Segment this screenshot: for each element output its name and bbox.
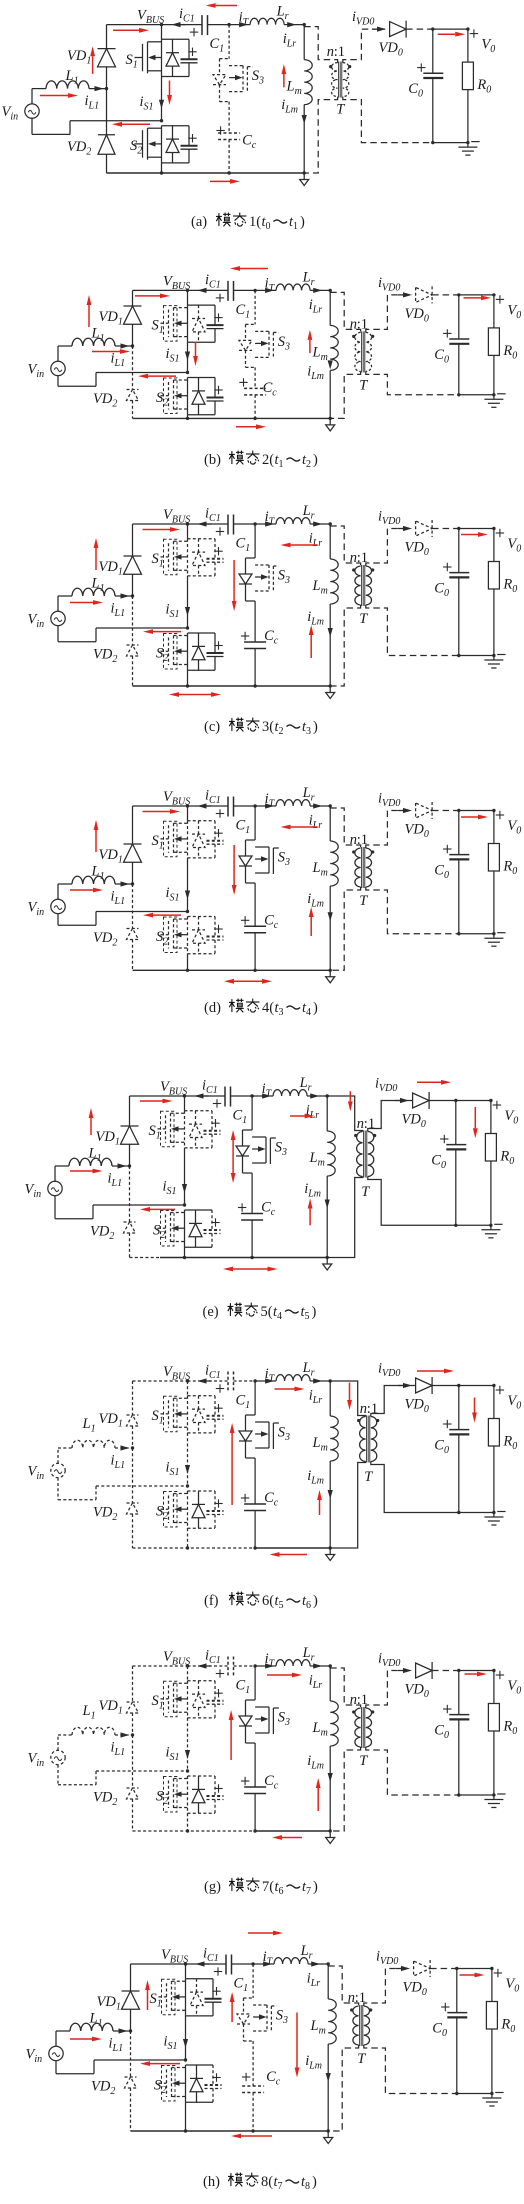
svg-text:L1: L1 xyxy=(88,1146,102,1165)
svg-text:iLr: iLr xyxy=(306,1103,320,1122)
svg-text:R0: R0 xyxy=(499,1149,514,1168)
svg-text:L1: L1 xyxy=(82,1416,96,1435)
svg-text:VD2: VD2 xyxy=(93,1790,117,1809)
svg-text:S2: S2 xyxy=(130,138,142,157)
svg-text:S1: S1 xyxy=(152,1693,164,1712)
svg-text:V0: V0 xyxy=(507,1678,521,1697)
svg-text:iL1: iL1 xyxy=(108,1171,123,1190)
svg-text:iLm: iLm xyxy=(307,891,324,910)
svg-text:iC1: iC1 xyxy=(205,506,221,525)
svg-text:S1: S1 xyxy=(152,1408,164,1427)
svg-text:S2: S2 xyxy=(156,646,168,665)
svg-text:Vin: Vin xyxy=(26,2047,43,2066)
svg-text:VD1: VD1 xyxy=(99,309,123,328)
svg-text:iVD0: iVD0 xyxy=(376,1949,398,1968)
svg-text:S3: S3 xyxy=(278,850,290,869)
svg-text:iLm: iLm xyxy=(307,363,324,382)
svg-text:iS1: iS1 xyxy=(166,1745,180,1764)
svg-text:t3: t3 xyxy=(275,1000,284,1018)
svg-text:t5: t5 xyxy=(301,1304,310,1322)
svg-text:2(: 2( xyxy=(262,452,274,468)
svg-text:S2: S2 xyxy=(156,929,168,948)
svg-text:R0: R0 xyxy=(502,1434,517,1453)
svg-text:VBUS: VBUS xyxy=(161,1947,188,1966)
svg-text:VD1: VD1 xyxy=(97,1994,121,2013)
svg-text::1: :1 xyxy=(357,550,368,566)
svg-text:): ) xyxy=(300,214,305,230)
svg-text:S3: S3 xyxy=(252,68,264,87)
svg-text:T: T xyxy=(361,1184,370,1200)
svg-text:(g): (g) xyxy=(204,1879,221,1895)
svg-text:(h): (h) xyxy=(203,2174,220,2190)
svg-text:R0: R0 xyxy=(500,2017,515,2036)
svg-text::1: :1 xyxy=(357,832,368,848)
svg-text:): ) xyxy=(313,1593,318,1609)
svg-text:L1: L1 xyxy=(91,864,105,883)
svg-text:1(: 1( xyxy=(249,214,261,230)
svg-text:S2: S2 xyxy=(156,390,168,409)
svg-text:Lm: Lm xyxy=(312,1720,328,1739)
svg-text:VD2: VD2 xyxy=(67,139,91,158)
svg-text:iC1: iC1 xyxy=(205,788,221,807)
svg-text:VD2: VD2 xyxy=(90,1224,114,1243)
svg-text:): ) xyxy=(312,1304,317,1320)
svg-text:iL1: iL1 xyxy=(111,351,126,370)
svg-text:(f): (f) xyxy=(204,1593,219,1609)
svg-text:VD0: VD0 xyxy=(405,1397,429,1416)
svg-text:t7: t7 xyxy=(274,2174,283,2192)
svg-text:S1: S1 xyxy=(152,318,164,337)
svg-text:Lm: Lm xyxy=(312,344,328,363)
svg-text:VD2: VD2 xyxy=(93,930,117,949)
svg-text:S3: S3 xyxy=(278,334,290,353)
svg-text:S1: S1 xyxy=(152,551,164,570)
svg-text:S3: S3 xyxy=(278,568,290,587)
svg-text:iVD0: iVD0 xyxy=(352,9,374,28)
svg-text:VD0: VD0 xyxy=(403,1980,427,1999)
svg-text:Cc: Cc xyxy=(264,912,279,931)
svg-text::1: :1 xyxy=(367,1401,378,1417)
svg-text:iLr: iLr xyxy=(309,297,323,316)
svg-text:VBUS: VBUS xyxy=(163,1649,190,1668)
svg-text:Lr: Lr xyxy=(302,1360,315,1379)
svg-text:C0: C0 xyxy=(408,81,423,100)
svg-text:iVD0: iVD0 xyxy=(378,275,400,294)
svg-text:Cc: Cc xyxy=(264,1773,279,1792)
svg-text:C0: C0 xyxy=(434,1723,449,1742)
svg-text:C1: C1 xyxy=(236,1393,251,1412)
svg-text:VBUS: VBUS xyxy=(160,1079,187,1098)
svg-text:VD0: VD0 xyxy=(402,1112,426,1131)
svg-text:L1: L1 xyxy=(91,326,105,345)
svg-text:t1: t1 xyxy=(275,452,284,470)
svg-text:VD2: VD2 xyxy=(93,1505,117,1524)
svg-text:t6: t6 xyxy=(302,1593,311,1611)
svg-text:C0: C0 xyxy=(434,863,449,882)
svg-text:VD2: VD2 xyxy=(93,391,117,410)
svg-text:V0: V0 xyxy=(504,1108,518,1127)
svg-text:t6: t6 xyxy=(275,1879,284,1897)
svg-text:7(: 7( xyxy=(262,1879,274,1895)
svg-text:T: T xyxy=(359,1753,368,1769)
svg-text:): ) xyxy=(313,1879,318,1895)
svg-text:iVD0: iVD0 xyxy=(375,1076,397,1095)
svg-text:VD1: VD1 xyxy=(99,1411,123,1430)
svg-text:): ) xyxy=(313,1000,318,1016)
svg-text:t5: t5 xyxy=(275,1593,284,1611)
svg-text:Cc: Cc xyxy=(242,133,257,152)
svg-text:R0: R0 xyxy=(502,577,517,596)
svg-text:iC1: iC1 xyxy=(205,272,221,291)
svg-text:iS1: iS1 xyxy=(163,1179,177,1198)
svg-text:VD2: VD2 xyxy=(93,647,117,666)
svg-text:iC1: iC1 xyxy=(205,1363,221,1382)
svg-text:VD1: VD1 xyxy=(99,559,123,578)
svg-text:C1: C1 xyxy=(236,536,251,555)
svg-text:C1: C1 xyxy=(233,1108,248,1127)
svg-text:t2: t2 xyxy=(275,719,284,737)
svg-text:VD1: VD1 xyxy=(96,1129,120,1148)
svg-text:C1: C1 xyxy=(236,818,251,837)
svg-text:t7: t7 xyxy=(302,1879,311,1897)
svg-text:3(: 3( xyxy=(262,719,274,735)
svg-text:t4: t4 xyxy=(273,1304,282,1322)
svg-text:C1: C1 xyxy=(210,36,225,55)
svg-text:): ) xyxy=(313,452,318,468)
svg-text:Lm: Lm xyxy=(309,1150,325,1169)
svg-text:V0: V0 xyxy=(507,1393,521,1412)
svg-text:VD0: VD0 xyxy=(379,40,403,59)
svg-text:S2: S2 xyxy=(156,1504,168,1523)
svg-text::1: :1 xyxy=(334,44,345,60)
svg-text:VBUS: VBUS xyxy=(137,8,164,27)
svg-text:T: T xyxy=(364,1469,373,1485)
svg-text:8(: 8( xyxy=(261,2174,273,2190)
svg-text:L1: L1 xyxy=(91,576,105,595)
svg-text:iC1: iC1 xyxy=(205,1648,221,1667)
svg-text:iLr: iLr xyxy=(283,31,297,50)
svg-text:iS1: iS1 xyxy=(166,346,180,365)
svg-text:iLr: iLr xyxy=(307,1971,321,1990)
svg-text:T: T xyxy=(336,102,345,118)
svg-text:S2: S2 xyxy=(156,1789,168,1808)
svg-text:T: T xyxy=(359,893,368,909)
svg-text:iL1: iL1 xyxy=(111,601,126,620)
svg-text:(e): (e) xyxy=(203,1304,219,1320)
svg-text:iL1: iL1 xyxy=(109,2036,124,2055)
svg-text:iL1: iL1 xyxy=(111,889,126,908)
svg-text:iVD0: iVD0 xyxy=(378,1361,400,1380)
svg-text:6(: 6( xyxy=(262,1593,274,1609)
svg-text:(b): (b) xyxy=(204,452,221,468)
svg-text:Lr: Lr xyxy=(302,785,315,804)
svg-text:V0: V0 xyxy=(505,1976,519,1995)
svg-text:Lm: Lm xyxy=(312,578,328,597)
svg-text:t2: t2 xyxy=(302,452,311,470)
svg-text:R0: R0 xyxy=(476,77,491,96)
svg-text:iL1: iL1 xyxy=(111,1740,126,1759)
svg-text:iLr: iLr xyxy=(309,531,323,550)
svg-text:Cc: Cc xyxy=(263,380,278,399)
svg-text:Lm: Lm xyxy=(312,1435,328,1454)
svg-text:(a): (a) xyxy=(191,214,207,230)
svg-text:C1: C1 xyxy=(236,302,251,321)
svg-text:Lr: Lr xyxy=(302,269,315,288)
svg-text:Lr: Lr xyxy=(299,1075,312,1094)
svg-text:R0: R0 xyxy=(502,859,517,878)
svg-text:S2: S2 xyxy=(153,1223,165,1242)
svg-text:C1: C1 xyxy=(236,1678,251,1697)
svg-text:T: T xyxy=(359,377,368,393)
svg-text:iLr: iLr xyxy=(309,1388,323,1407)
svg-text:V0: V0 xyxy=(507,818,521,837)
svg-text:(d): (d) xyxy=(204,1000,221,1016)
svg-text:VD0: VD0 xyxy=(405,822,429,841)
svg-text:Vin: Vin xyxy=(2,104,19,123)
svg-text:Lr: Lr xyxy=(300,1943,313,1962)
svg-text:iS1: iS1 xyxy=(164,2034,178,2053)
svg-text:V0: V0 xyxy=(507,536,521,555)
svg-text:VBUS: VBUS xyxy=(163,1364,190,1383)
svg-text:S1: S1 xyxy=(150,1991,162,2010)
svg-text:t4: t4 xyxy=(302,1000,311,1018)
svg-text:S3: S3 xyxy=(278,1710,290,1729)
svg-text:Vin: Vin xyxy=(28,900,45,919)
svg-text:Cc: Cc xyxy=(264,628,279,647)
svg-text:iLm: iLm xyxy=(281,97,298,116)
svg-text:VD1: VD1 xyxy=(67,48,91,67)
svg-text:T: T xyxy=(357,2051,366,2067)
svg-text:L1: L1 xyxy=(65,68,79,87)
svg-text:Cc: Cc xyxy=(264,1490,279,1509)
svg-text:T: T xyxy=(359,611,368,627)
svg-text:iL1: iL1 xyxy=(111,1453,126,1472)
svg-text:Vin: Vin xyxy=(25,1182,42,1201)
svg-text:VD2: VD2 xyxy=(91,2079,115,2098)
svg-text:R0: R0 xyxy=(502,343,517,362)
svg-text:C0: C0 xyxy=(434,347,449,366)
svg-text:iLm: iLm xyxy=(305,2053,322,2072)
svg-text:Vin: Vin xyxy=(28,1751,45,1770)
svg-text:iVD0: iVD0 xyxy=(378,791,400,810)
svg-text:iLm: iLm xyxy=(307,609,324,628)
svg-text:VD1: VD1 xyxy=(99,847,123,866)
svg-text:iS1: iS1 xyxy=(166,602,180,621)
svg-text:VD0: VD0 xyxy=(405,1682,429,1701)
svg-text:C0: C0 xyxy=(434,581,449,600)
svg-text:C0: C0 xyxy=(431,1153,446,1172)
svg-text:iVD0: iVD0 xyxy=(378,1651,400,1670)
svg-text:iC1: iC1 xyxy=(203,1946,219,1965)
svg-text:iC1: iC1 xyxy=(179,6,195,25)
svg-text:R0: R0 xyxy=(502,1719,517,1738)
svg-text:S1: S1 xyxy=(126,52,138,71)
svg-text:VD0: VD0 xyxy=(405,306,429,325)
svg-text:t8: t8 xyxy=(301,2174,310,2192)
svg-text:t0: t0 xyxy=(262,214,271,232)
svg-text:C0: C0 xyxy=(432,2021,447,2040)
svg-text:iS1: iS1 xyxy=(166,885,180,904)
svg-text::1: :1 xyxy=(364,1116,375,1132)
svg-text:Vin: Vin xyxy=(28,1464,45,1483)
svg-text:iS1: iS1 xyxy=(166,1460,180,1479)
svg-text:): ) xyxy=(313,719,318,735)
svg-text:5(: 5( xyxy=(261,1304,273,1320)
svg-text:iLm: iLm xyxy=(307,1468,324,1487)
svg-text:iS1: iS1 xyxy=(140,94,154,113)
svg-text:Lr: Lr xyxy=(276,4,289,23)
svg-text:t3: t3 xyxy=(302,719,311,737)
svg-text:Vin: Vin xyxy=(28,362,45,381)
svg-text:): ) xyxy=(312,2174,317,2190)
svg-text:iLm: iLm xyxy=(307,1753,324,1772)
svg-text:Lm: Lm xyxy=(286,79,302,98)
svg-text:VBUS: VBUS xyxy=(163,507,190,526)
svg-text:Lr: Lr xyxy=(302,1645,315,1664)
svg-text:Cc: Cc xyxy=(261,1200,276,1219)
svg-text:iL1: iL1 xyxy=(85,93,100,112)
svg-text:C0: C0 xyxy=(434,1438,449,1457)
svg-text:S2: S2 xyxy=(154,2078,166,2097)
svg-text:(c): (c) xyxy=(204,719,220,735)
svg-text:iLm: iLm xyxy=(304,1181,321,1200)
svg-text::1: :1 xyxy=(355,1990,366,2006)
svg-text:Vin: Vin xyxy=(28,612,45,631)
svg-text:C1: C1 xyxy=(234,1976,249,1995)
svg-text:Lm: Lm xyxy=(310,2018,326,2037)
svg-text:Lr: Lr xyxy=(302,503,315,522)
svg-text:V0: V0 xyxy=(507,302,521,321)
svg-text:S3: S3 xyxy=(278,1425,290,1444)
svg-text:4(: 4( xyxy=(262,1000,274,1016)
svg-text:Lm: Lm xyxy=(312,860,328,879)
svg-text:S3: S3 xyxy=(276,2008,288,2027)
svg-text:L1: L1 xyxy=(89,2011,103,2030)
svg-text:V0: V0 xyxy=(481,37,495,56)
svg-text:iVD0: iVD0 xyxy=(378,509,400,528)
svg-text:VBUS: VBUS xyxy=(163,789,190,808)
svg-text:VD1: VD1 xyxy=(99,1698,123,1717)
svg-text:S1: S1 xyxy=(152,833,164,852)
svg-text:Cc: Cc xyxy=(266,2069,281,2088)
svg-text:iLr: iLr xyxy=(309,1673,323,1692)
svg-text::1: :1 xyxy=(357,1692,368,1708)
svg-text:VBUS: VBUS xyxy=(163,273,190,292)
svg-text:VD0: VD0 xyxy=(405,540,429,559)
svg-text:S1: S1 xyxy=(149,1123,161,1142)
svg-text::1: :1 xyxy=(357,316,368,332)
svg-text:t1: t1 xyxy=(289,214,298,232)
svg-text:L1: L1 xyxy=(82,1703,96,1722)
svg-text:iLr: iLr xyxy=(309,813,323,832)
svg-text:iC1: iC1 xyxy=(202,1078,218,1097)
svg-text:S3: S3 xyxy=(275,1140,287,1159)
